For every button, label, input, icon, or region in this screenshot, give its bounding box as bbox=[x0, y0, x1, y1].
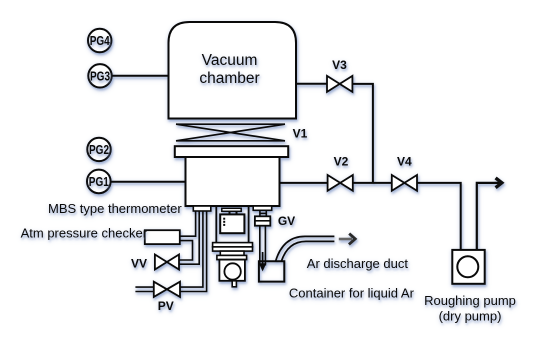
pipe PG3 to chamber bbox=[112, 75, 169, 77]
flange bar upper bbox=[213, 243, 253, 247]
valve V2 bbox=[328, 175, 353, 191]
vacuum chamber bbox=[169, 22, 297, 119]
roughing pump box bbox=[452, 250, 484, 284]
pipe body to VV (vertical) bbox=[179, 211, 199, 264]
display box bbox=[220, 214, 244, 233]
exhaust arrowhead bbox=[496, 178, 502, 188]
svg-text:VV: VV bbox=[131, 256, 147, 270]
pipe body to PV lower bbox=[180, 211, 207, 292]
valve V4 bbox=[392, 175, 417, 191]
svg-text:V4: V4 bbox=[397, 155, 412, 169]
svg-text:PV: PV bbox=[158, 299, 174, 313]
GV neck bbox=[259, 210, 261, 216]
svg-text:V3: V3 bbox=[332, 58, 347, 72]
valve VV bbox=[155, 255, 179, 270]
pump body (cryopump) bbox=[186, 157, 280, 206]
display dots bbox=[223, 218, 225, 226]
valve V1 (gate valve under chamber) bbox=[176, 124, 285, 141]
svg-text:Container for liquid Ar: Container for liquid Ar bbox=[289, 285, 415, 300]
left leg bbox=[215, 206, 217, 243]
svg-text:PG3: PG3 bbox=[90, 68, 110, 83]
svg-text:Vacuum: Vacuum bbox=[202, 52, 258, 69]
pipe V3 down to junction bbox=[352, 84, 373, 183]
bottom stub bbox=[232, 281, 236, 287]
flange bar lower bbox=[213, 247, 253, 251]
GV arrowhead bbox=[259, 263, 267, 271]
neck bar bbox=[220, 251, 244, 255]
svg-text:chamber: chamber bbox=[199, 70, 259, 87]
pipe body to Atm checker (vertical) bbox=[180, 211, 196, 236]
svg-text:Ar discharge duct: Ar discharge duct bbox=[307, 256, 409, 271]
motor circle bbox=[224, 263, 240, 279]
gauge PG2 bbox=[87, 138, 110, 161]
middle assembly: pads bbox=[229, 211, 231, 214]
pipe PG1 to pump body bbox=[111, 181, 186, 183]
svg-text:Roughing pump: Roughing pump bbox=[424, 293, 516, 308]
exhaust pipe bbox=[477, 183, 500, 250]
gauge PG1 bbox=[87, 170, 111, 194]
svg-text:PG1: PG1 bbox=[89, 174, 109, 189]
pipe PV inlet (open end) bbox=[135, 286, 153, 288]
pipe V2 to junction bbox=[353, 182, 392, 184]
valve V3 bbox=[327, 76, 352, 92]
pipe body to PV upper bbox=[180, 211, 203, 287]
right foot bbox=[253, 206, 272, 210]
svg-text:GV: GV bbox=[278, 214, 295, 228]
right leg bbox=[248, 206, 250, 243]
svg-text:MBS type thermometer: MBS type thermometer bbox=[48, 201, 182, 216]
Atm pressure checker box bbox=[145, 230, 180, 244]
pipe Atm-VV connector bbox=[179, 241, 193, 260]
middle assembly: hat flange bbox=[222, 208, 241, 211]
GV pipe down bbox=[259, 226, 261, 266]
valve PV bbox=[154, 282, 180, 297]
gauge PG3 bbox=[88, 64, 111, 87]
svg-text:PG4: PG4 bbox=[90, 33, 111, 48]
gauge PG4 bbox=[88, 29, 111, 52]
pipe V4 to roughing pump bbox=[417, 183, 461, 250]
svg-text:(dry pump): (dry pump) bbox=[439, 309, 502, 324]
pipe body to V2 bbox=[280, 182, 328, 184]
svg-text:Atm pressure checker: Atm pressure checker bbox=[21, 225, 148, 240]
svg-text:V1: V1 bbox=[293, 127, 308, 141]
discharge arrow bbox=[339, 238, 352, 241]
left foot bbox=[193, 206, 211, 211]
GV valve block bbox=[255, 216, 270, 225]
container for liquid Ar bbox=[259, 261, 284, 281]
neck bar 2 bbox=[217, 255, 247, 259]
svg-text:V2: V2 bbox=[334, 155, 349, 169]
svg-text:PG2: PG2 bbox=[89, 142, 109, 157]
motor box bbox=[219, 260, 245, 281]
pipe chamber to V3 bbox=[296, 83, 327, 85]
roughing pump circle bbox=[457, 256, 478, 277]
Ar discharge duct bbox=[276, 236, 335, 261]
flange plate bbox=[175, 146, 288, 157]
